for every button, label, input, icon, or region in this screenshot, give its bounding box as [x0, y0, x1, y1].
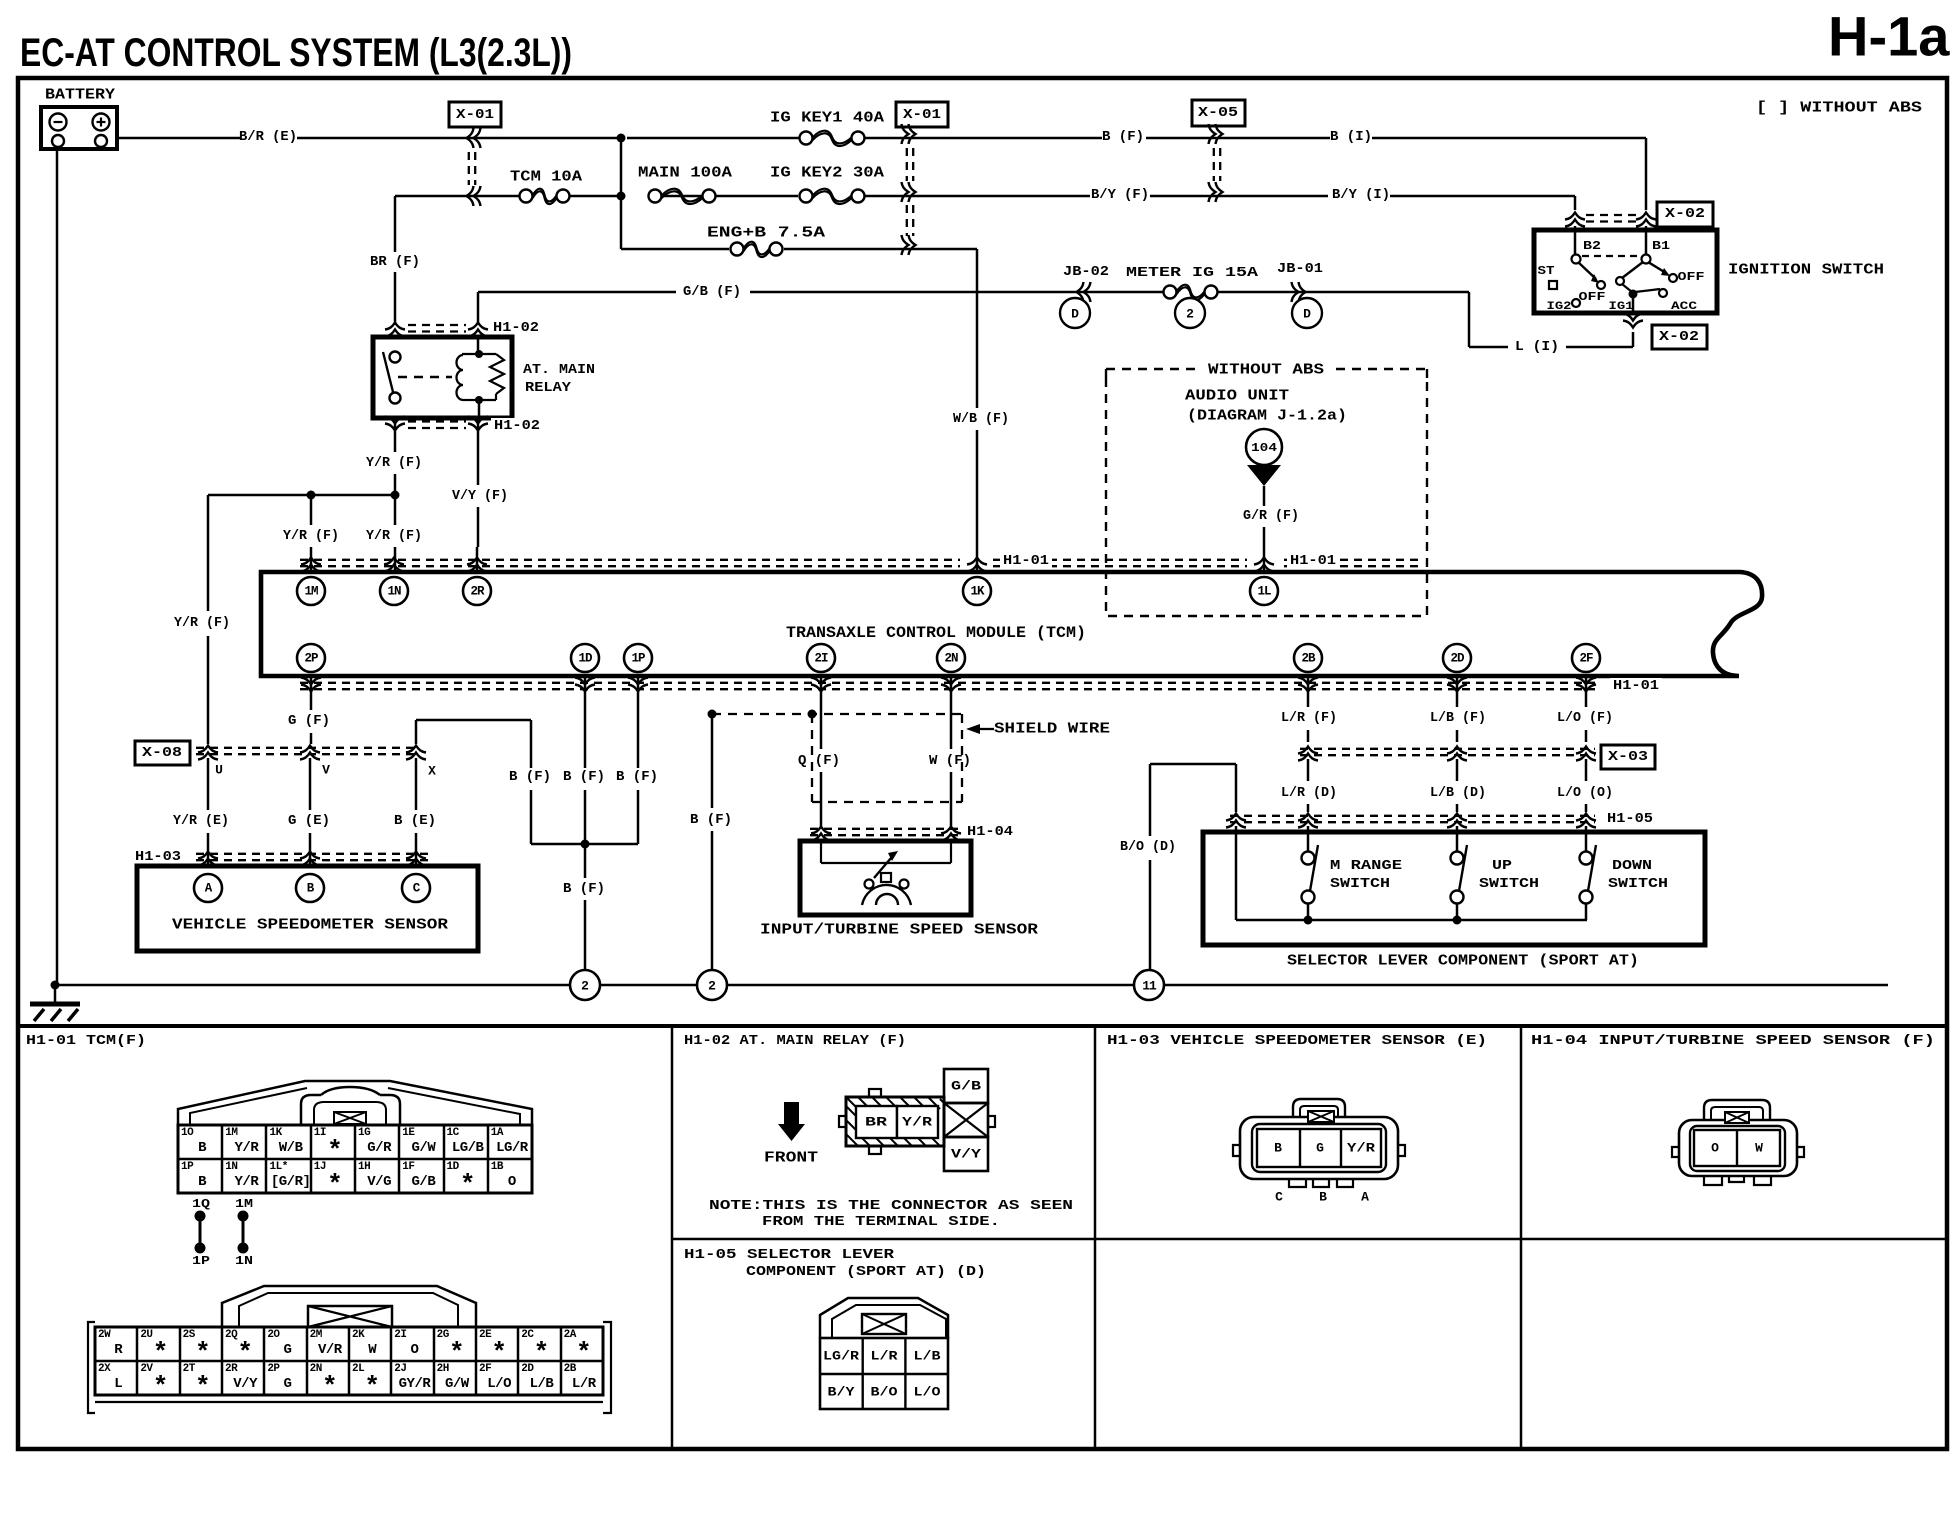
svg-text:X-05: X-05 — [1198, 105, 1238, 121]
svg-text:1M: 1M — [225, 1127, 238, 1139]
svg-text:1A: 1A — [491, 1127, 504, 1139]
relay coil — [477, 337, 480, 352]
H1-01 connector 2 pin grid — [95, 1327, 603, 1395]
connector H1-05 dashed line — [1230, 815, 1595, 817]
H1-02 relay connector notches — [869, 1089, 881, 1097]
svg-text:V/Y (F): V/Y (F) — [452, 488, 508, 504]
svg-text:1K: 1K — [970, 585, 985, 599]
svg-text:2N: 2N — [944, 652, 958, 666]
ignition switch mechanical link dashed — [1582, 255, 1640, 257]
H1-02 relay connector body hatched — [846, 1097, 944, 1146]
svg-text:BR (F): BR (F) — [370, 254, 420, 270]
svg-text:H1-03 VEHICLE SPEEDOMETER SENS: H1-03 VEHICLE SPEEDOMETER SENSOR (E) — [1107, 1033, 1487, 1049]
ignition switch lever B1 contacts — [1622, 262, 1643, 278]
svg-text:L/O (F): L/O (F) — [1557, 710, 1613, 726]
svg-text:IG KEY1 40A: IG KEY1 40A — [770, 110, 884, 127]
H1-05 connector outline — [820, 1298, 948, 1338]
svg-text:MAIN 100A: MAIN 100A — [638, 165, 732, 182]
svg-text:G/W: G/W — [445, 1376, 470, 1392]
ignition switch terminal IG2 — [1572, 299, 1580, 307]
svg-text:2: 2 — [1186, 307, 1194, 322]
svg-text:*: * — [322, 1372, 338, 1402]
svg-text:W/B (F): W/B (F) — [953, 411, 1009, 427]
ignition switch IG1 node — [1629, 290, 1638, 299]
wire X to sensor pin C — [415, 758, 418, 810]
ignition switch lever B2-OFF — [1578, 262, 1596, 279]
svg-text:1P: 1P — [192, 1254, 210, 1268]
wire B/O(D) into selector — [1235, 764, 1238, 812]
svg-text:1M: 1M — [304, 585, 318, 599]
svg-text:B (F): B (F) — [563, 769, 605, 785]
svg-text:DOWN: DOWN — [1612, 858, 1652, 874]
H1-03 connector side tabs — [1233, 1145, 1240, 1156]
ignition switch terminal B1 — [1642, 255, 1651, 264]
svg-text:Y/R (F): Y/R (F) — [174, 615, 230, 631]
component SELECTOR LEVER COMPONENT box — [1203, 832, 1705, 945]
svg-text:TRANSAXLE CONTROL MODULE (TCM): TRANSAXLE CONTROL MODULE (TCM) — [786, 624, 1086, 642]
svg-text:(DIAGRAM J-1.2a): (DIAGRAM J-1.2a) — [1187, 408, 1347, 425]
svg-text:Q (F): Q (F) — [798, 753, 840, 769]
svg-text:JB-02: JB-02 — [1063, 264, 1109, 280]
junction node TCM row — [617, 192, 626, 201]
wire L/R(F) from TCM 2B — [1307, 676, 1310, 707]
svg-text:L/R: L/R — [572, 1376, 597, 1392]
sensor pin C — [402, 874, 430, 902]
svg-text:H1-02: H1-02 — [493, 320, 539, 336]
junction Y/R node B — [307, 491, 316, 500]
sensor pin A — [194, 874, 222, 902]
H1-04 input sensor connector outer — [1679, 1120, 1797, 1176]
wire BR(F) from TCM fuse to relay — [394, 196, 397, 252]
svg-text:2I: 2I — [394, 1329, 406, 1341]
TCM pin 2F — [1572, 644, 1600, 672]
joint circle 2 right — [697, 970, 727, 1000]
ground symbol — [30, 1002, 80, 1007]
connector X-01 right — [896, 102, 948, 127]
svg-text:L/O: L/O — [487, 1376, 511, 1392]
svg-text:AUDIO UNIT: AUDIO UNIT — [1185, 388, 1289, 405]
H1-01 connector 1 lock bowtie — [334, 1112, 366, 1124]
wire V to sensor pin B — [309, 758, 312, 810]
svg-text:EC-AT CONTROL SYSTEM (L3(2.3L): EC-AT CONTROL SYSTEM (L3(2.3L)) — [20, 31, 572, 75]
wire B/O(D) elbow from ground joint 11 — [1149, 764, 1152, 836]
svg-text:1G: 1G — [358, 1127, 371, 1139]
wire battery positive B/R(E) row — [117, 137, 240, 140]
relay switch contact bottom — [390, 393, 401, 404]
svg-text:1L: 1L — [1257, 585, 1271, 599]
svg-text:2L: 2L — [352, 1363, 365, 1375]
connector H1-01 top dashed line — [300, 559, 960, 561]
selector common bus — [1236, 919, 1587, 922]
junction node B(F) — [581, 840, 590, 849]
wire L/R(D) — [1307, 759, 1310, 781]
ground junction node — [51, 981, 60, 990]
wire branch to TCM 1M — [310, 495, 313, 525]
svg-text:INPUT/TURBINE SPEED SENSOR: INPUT/TURBINE SPEED SENSOR — [760, 922, 1038, 939]
svg-text:M RANGE: M RANGE — [1330, 858, 1402, 874]
TCM pin 2R — [463, 577, 491, 605]
TCM pin 2P — [297, 644, 325, 672]
TCM pin 2B — [1294, 644, 1322, 672]
svg-text:1C: 1C — [447, 1127, 460, 1139]
svg-text:C: C — [1275, 1190, 1283, 1205]
svg-text:Y/R (F): Y/R (F) — [283, 528, 339, 544]
UP switch — [1456, 826, 1459, 851]
DOWN switch — [1585, 826, 1588, 851]
svg-text:*: * — [534, 1338, 550, 1368]
wire L/B(F) from TCM 2D — [1456, 676, 1459, 707]
svg-text:L (I): L (I) — [1515, 339, 1559, 355]
svg-text:ACC: ACC — [1671, 301, 1698, 313]
wire B(F) junction bar — [531, 843, 638, 846]
svg-text:X-03: X-03 — [1608, 749, 1648, 765]
svg-text:X-01: X-01 — [456, 107, 494, 123]
svg-text:L/R: L/R — [871, 1349, 898, 1364]
relay AT.MAIN RELAY box — [373, 337, 512, 418]
svg-text:H1-01: H1-01 — [1613, 678, 1659, 694]
svg-text:1B: 1B — [491, 1161, 504, 1173]
svg-text:2F: 2F — [479, 1363, 491, 1375]
connector X-08 — [135, 741, 190, 765]
svg-text:IG1: IG1 — [1609, 301, 1634, 313]
svg-text:V: V — [322, 763, 330, 778]
svg-text:L/B: L/B — [914, 1349, 941, 1364]
svg-text:G (E): G (E) — [288, 813, 330, 829]
svg-text:H1-04: H1-04 — [967, 824, 1013, 840]
H1-01 connector 1 pin grid — [178, 1125, 532, 1193]
shield wire dashed screen — [712, 713, 962, 715]
wire B(I) drop to ignition switch B1 — [1645, 138, 1648, 210]
TCM pin 1M — [297, 577, 325, 605]
sensor VEHICLE SPEEDOMETER SENSOR box — [137, 866, 478, 951]
TCM pin 1L — [1250, 577, 1278, 605]
svg-text:V/Y: V/Y — [233, 1376, 258, 1392]
svg-text:1J: 1J — [314, 1161, 326, 1173]
svg-text:2X: 2X — [98, 1363, 111, 1375]
svg-text:Y/R: Y/R — [235, 1140, 260, 1156]
svg-text:H1-02: H1-02 — [494, 418, 540, 434]
wire TCM 10A row — [395, 195, 520, 198]
svg-text:2N: 2N — [310, 1363, 322, 1375]
svg-text:WITHOUT ABS: WITHOUT ABS — [1208, 362, 1324, 379]
svg-text:SHIELD WIRE: SHIELD WIRE — [994, 721, 1110, 738]
svg-text:L/O (O): L/O (O) — [1557, 785, 1613, 801]
svg-text:IG KEY2 30A: IG KEY2 30A — [770, 165, 884, 182]
svg-text:2G: 2G — [437, 1329, 450, 1341]
svg-text:TCM 10A: TCM 10A — [510, 169, 582, 186]
relay actuation dashed link — [398, 376, 452, 378]
svg-text:1I: 1I — [314, 1127, 326, 1139]
svg-text:*: * — [576, 1338, 592, 1368]
svg-text:W: W — [368, 1342, 377, 1358]
H1-02 relay connector cells — [856, 1106, 897, 1138]
connector H1-02 bottom — [385, 417, 405, 431]
wire Q(F) from TCM 2I — [820, 676, 823, 749]
svg-text:2F: 2F — [1579, 652, 1593, 666]
H1-03 speedometer connector outer — [1240, 1117, 1398, 1179]
svg-text:2P: 2P — [304, 652, 318, 666]
sensor INPUT/TURBINE SPEED SENSOR box — [800, 841, 971, 915]
svg-text:1N: 1N — [387, 585, 401, 599]
H1-01 connector 2 end tabs — [88, 1322, 95, 1413]
connector table grid — [18, 1024, 1947, 1028]
svg-text:L/O: L/O — [914, 1385, 941, 1400]
H1-05 connector lock bowtie — [862, 1314, 906, 1334]
svg-text:SELECTOR LEVER COMPONENT (SPOR: SELECTOR LEVER COMPONENT (SPORT AT) — [1287, 953, 1639, 970]
H1-05 connector pin grid — [820, 1338, 948, 1409]
svg-text:B (F): B (F) — [509, 769, 551, 785]
svg-text:A: A — [1361, 1190, 1369, 1205]
svg-text:1O: 1O — [181, 1127, 194, 1139]
TCM pin 2D — [1443, 644, 1471, 672]
svg-text:L/R (F): L/R (F) — [1281, 710, 1337, 726]
audio unit dashed enclosure WITHOUT ABS — [1106, 378, 1427, 616]
svg-text:OFF: OFF — [1579, 290, 1606, 304]
svg-text:G: G — [284, 1376, 292, 1392]
svg-text:2M: 2M — [310, 1329, 323, 1341]
svg-text:B: B — [198, 1174, 207, 1190]
ignition switch terminal ACC — [1659, 289, 1667, 297]
wire G(F) from TCM 2P — [310, 676, 313, 710]
svg-text:*: * — [153, 1372, 169, 1402]
svg-text:2S: 2S — [183, 1329, 196, 1341]
wire relay coil output V/Y(F) to TCM 2R — [477, 418, 480, 485]
svg-text:Y/R (F): Y/R (F) — [366, 528, 422, 544]
svg-text:FRONT: FRONT — [764, 1150, 818, 1167]
svg-text:*: * — [460, 1170, 476, 1200]
wire L(I) rise to ignition switch IG1 — [1632, 332, 1635, 347]
svg-text:G/R: G/R — [367, 1140, 392, 1156]
svg-text:ENG+B 7.5A: ENG+B 7.5A — [707, 225, 825, 242]
svg-text:SWITCH: SWITCH — [1608, 876, 1668, 892]
svg-text:*: * — [449, 1338, 465, 1368]
svg-text:1E: 1E — [402, 1127, 415, 1139]
connector H1-04 dashed line — [810, 828, 962, 830]
svg-text:LG/B: LG/B — [452, 1140, 485, 1156]
sensor pin B — [296, 874, 324, 902]
svg-text:X-01: X-01 — [903, 107, 941, 123]
connector X-02 top — [1565, 213, 1585, 227]
svg-text:1D: 1D — [578, 652, 593, 666]
svg-text:X-02: X-02 — [1659, 329, 1699, 345]
svg-text:IGNITION SWITCH: IGNITION SWITCH — [1728, 262, 1884, 279]
H1-03 connector bottom tabs — [1289, 1179, 1306, 1187]
svg-text:G (F): G (F) — [288, 713, 330, 729]
svg-text:Y/R (E): Y/R (E) — [173, 813, 229, 829]
svg-text:Y/R: Y/R — [1347, 1141, 1375, 1156]
wire junction drop x=621 — [620, 138, 623, 249]
joint circle 2 left — [570, 970, 600, 1000]
svg-text:W (F): W (F) — [929, 753, 971, 769]
svg-text:ST: ST — [1538, 264, 1555, 278]
ignition switch lever B1-OFF arrow — [1648, 262, 1666, 273]
svg-text:[ ] WITHOUT ABS: [ ] WITHOUT ABS — [1756, 100, 1922, 117]
wire W(F) from TCM 2N — [950, 676, 953, 749]
H1-01 connector 2 lock bowtie — [308, 1306, 392, 1327]
svg-text:V/Y: V/Y — [951, 1147, 981, 1162]
svg-text:SWITCH: SWITCH — [1479, 876, 1539, 892]
svg-text:2B: 2B — [564, 1363, 577, 1375]
svg-text:METER IG 15A: METER IG 15A — [1126, 265, 1259, 281]
svg-text:AT. MAIN: AT. MAIN — [523, 362, 595, 378]
joint circle D right — [1292, 298, 1322, 328]
svg-text:W: W — [1755, 1141, 1763, 1156]
svg-text:D: D — [1303, 307, 1311, 322]
svg-text:B (F): B (F) — [1102, 129, 1144, 145]
wire ENG+B row — [621, 248, 729, 251]
TCM pin 1D — [571, 644, 599, 672]
svg-text:H1-05: H1-05 — [1607, 811, 1653, 827]
H1-04 connector bottom tabs — [1704, 1176, 1722, 1185]
svg-text:O: O — [1711, 1141, 1719, 1156]
TCM pin 2N — [937, 644, 965, 672]
H1-03 connector top latch — [1293, 1099, 1345, 1117]
wire relay output Y/R(F) to TCM 1N — [394, 418, 397, 452]
connector H1-01 bottom dashed line — [300, 682, 1595, 684]
svg-text:H1-04 INPUT/TURBINE SPEED SENS: H1-04 INPUT/TURBINE SPEED SENSOR (F) — [1531, 1033, 1935, 1049]
wire G/B(F) row — [478, 291, 676, 294]
svg-text:V/R: V/R — [318, 1342, 343, 1358]
svg-text:L/B: L/B — [530, 1376, 555, 1392]
wire L/O(F) from TCM 2F — [1585, 676, 1588, 707]
svg-text:2I: 2I — [814, 652, 828, 666]
svg-text:1N: 1N — [225, 1161, 237, 1173]
wire Y/R branch horizontal — [208, 494, 395, 497]
svg-text:B: B — [198, 1140, 207, 1156]
svg-text:VEHICLE SPEEDOMETER SENSOR: VEHICLE SPEEDOMETER SENSOR — [172, 917, 448, 934]
svg-text:FROM THE TERMINAL SIDE.: FROM THE TERMINAL SIDE. — [762, 1214, 1000, 1230]
svg-text:V/G: V/G — [367, 1174, 391, 1190]
wire B(F) from X net down — [530, 720, 533, 768]
svg-text:1P: 1P — [181, 1161, 194, 1173]
svg-text:B/Y: B/Y — [828, 1385, 855, 1400]
svg-text:O: O — [508, 1174, 516, 1190]
svg-text:*: * — [327, 1136, 343, 1166]
TCM pin 1N — [380, 577, 408, 605]
H1-04 connector lock bowtie — [1725, 1112, 1749, 1123]
svg-text:2Q: 2Q — [225, 1329, 238, 1341]
svg-text:2V: 2V — [140, 1363, 153, 1375]
H1-03 connector cells — [1257, 1129, 1381, 1167]
svg-text:G/B: G/B — [412, 1174, 437, 1190]
svg-text:G/B: G/B — [951, 1079, 981, 1094]
svg-text:*: * — [491, 1338, 507, 1368]
svg-text:B (F): B (F) — [563, 881, 605, 897]
H1-01 TCM connector 1 outline — [178, 1081, 532, 1124]
svg-text:*: * — [195, 1372, 211, 1402]
H1-03 connector lock bowtie — [1308, 1111, 1334, 1122]
TCM pin 2I — [807, 644, 835, 672]
module TRANSAXLE CONTROL MODULE (TCM) box — [261, 572, 1762, 676]
svg-text:JB-01: JB-01 — [1277, 261, 1323, 277]
svg-text:B: B — [1274, 1141, 1282, 1156]
svg-text:[G/R]: [G/R] — [271, 1174, 311, 1190]
svg-text:OFF: OFF — [1678, 270, 1705, 284]
svg-text:X-02: X-02 — [1665, 206, 1705, 222]
svg-text:LG/R: LG/R — [823, 1349, 859, 1364]
svg-text:D: D — [1071, 307, 1079, 322]
svg-text:2H: 2H — [437, 1363, 449, 1375]
H1-04 connector top latch — [1704, 1100, 1770, 1120]
svg-text:B1: B1 — [1652, 239, 1670, 253]
svg-text:Y/R: Y/R — [902, 1115, 932, 1130]
svg-text:B (F): B (F) — [616, 769, 658, 785]
svg-text:G: G — [284, 1342, 292, 1358]
junction Y/R node A — [391, 491, 400, 500]
wire battery negative to ground bus — [56, 147, 59, 985]
wire B(F) shield drain — [708, 710, 717, 719]
wire G/B(F) drop to relay coil — [477, 292, 480, 325]
relay switch contact top — [390, 352, 401, 363]
svg-text:104: 104 — [1251, 441, 1277, 455]
junction node at X-01 feed — [617, 134, 626, 143]
H1-04 connector cells — [1694, 1130, 1780, 1166]
wire U to sensor pin A — [207, 758, 210, 810]
svg-text:G/W: G/W — [412, 1140, 437, 1156]
wire IG1 to box bottom — [1632, 298, 1635, 313]
shield wire callout arrow — [966, 724, 980, 734]
svg-text:*: * — [327, 1170, 343, 1200]
svg-text:U: U — [215, 763, 223, 778]
wire B(F) from TCM 1D — [584, 676, 587, 768]
svg-text:H1-03: H1-03 — [135, 849, 181, 865]
H1-02 relay connector right column — [944, 1069, 988, 1103]
svg-text:X-08: X-08 — [142, 745, 182, 761]
svg-text:BR: BR — [865, 1115, 887, 1130]
svg-text:*: * — [237, 1338, 253, 1368]
ground bus wire — [55, 984, 570, 987]
svg-text:1K: 1K — [270, 1127, 283, 1139]
ignition switch box — [1534, 230, 1717, 313]
svg-text:1M: 1M — [235, 1197, 253, 1211]
sensor internal wires — [820, 841, 822, 863]
svg-text:1Q: 1Q — [192, 1197, 210, 1211]
connector X-02 bottom — [1652, 325, 1707, 349]
relay switch lever — [383, 352, 393, 392]
svg-text:1P: 1P — [631, 652, 645, 666]
svg-text:R: R — [114, 1342, 123, 1358]
svg-text:2O: 2O — [267, 1329, 280, 1341]
svg-text:H1-02 AT. MAIN RELAY (F): H1-02 AT. MAIN RELAY (F) — [684, 1033, 906, 1049]
svg-text:G: G — [1316, 1141, 1324, 1156]
ignition switch terminal B2 — [1572, 255, 1581, 264]
svg-text:2P: 2P — [267, 1363, 280, 1375]
H1-01 TCM connector 2 outline — [222, 1286, 476, 1327]
svg-text:11: 11 — [1142, 979, 1157, 994]
svg-text:1F: 1F — [402, 1161, 414, 1173]
connector H1-02 top — [385, 323, 405, 337]
joint circle 2 meter — [1175, 298, 1205, 328]
svg-text:Y/R: Y/R — [235, 1174, 260, 1190]
svg-text:2T: 2T — [183, 1363, 196, 1375]
svg-text:2E: 2E — [479, 1329, 492, 1341]
svg-text:1D: 1D — [447, 1161, 460, 1173]
svg-text:UP: UP — [1492, 858, 1512, 874]
TCM pin 1K — [963, 577, 991, 605]
wire G/R(F) to TCM 1L — [1263, 486, 1266, 506]
svg-text:O: O — [411, 1342, 419, 1358]
svg-text:1L*: 1L* — [270, 1161, 288, 1173]
wire ENG+B W/B(F) drop to TCM 1K — [976, 249, 979, 408]
svg-text:H1-01: H1-01 — [1290, 553, 1336, 569]
svg-text:*: * — [364, 1372, 380, 1402]
TCM pin 1P — [624, 644, 652, 672]
svg-text:LG/R: LG/R — [496, 1140, 529, 1156]
svg-text:B/R (E): B/R (E) — [239, 129, 297, 145]
connector X-05 — [1192, 100, 1245, 126]
svg-text:Y/R (F): Y/R (F) — [366, 455, 422, 471]
svg-text:2U: 2U — [140, 1329, 152, 1341]
